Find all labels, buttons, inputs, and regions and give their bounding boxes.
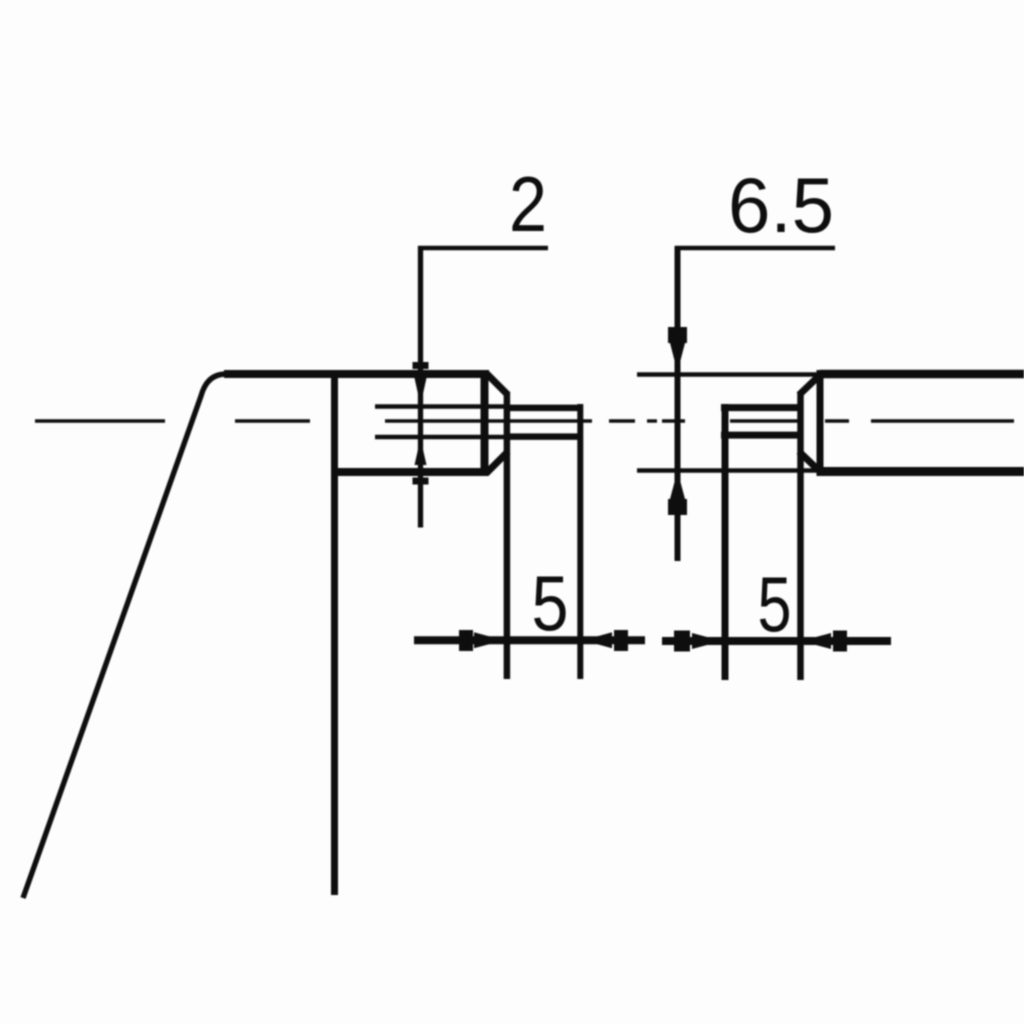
svg-text:5: 5 [532, 559, 569, 647]
svg-text:2: 2 [509, 160, 547, 248]
svg-text:6.5: 6.5 [728, 161, 834, 249]
svg-text:5: 5 [758, 560, 792, 648]
